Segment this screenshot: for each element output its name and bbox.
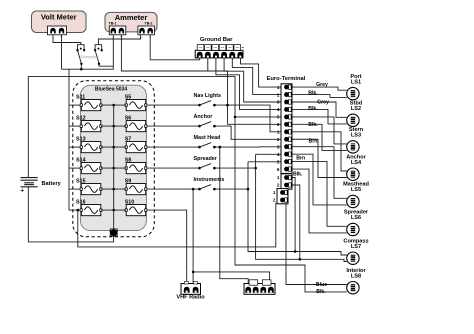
euro-terminal strip B (277, 174, 292, 189)
svg-text:Euro-Terminal: Euro-Terminal (267, 76, 306, 82)
wire label Blk. (308, 122, 318, 128)
circuit breaker S12 (76, 115, 102, 131)
wire volt meter + terminal down to bus (61, 34, 63, 70)
switch Spreader (194, 156, 218, 170)
svg-text:TB-2: TB-2 (145, 22, 153, 26)
wire panel row 2 internal (101, 125, 126, 128)
wire switch SW2 bottom elbow (99, 64, 113, 67)
switch gang link (80, 56, 99, 58)
svg-text:Blk.: Blk. (308, 90, 318, 96)
wire label Blk. (308, 90, 318, 96)
switch Instruments (194, 177, 225, 191)
circuit breaker S7 (125, 136, 147, 152)
terminal block TB4 (244, 280, 275, 295)
svg-text:6: 6 (277, 167, 280, 172)
svg-text:LS8: LS8 (351, 273, 361, 279)
svg-text:S9: S9 (125, 178, 132, 184)
svg-text:S10: S10 (125, 199, 135, 205)
wire battery positive to panel ground terminal (28, 187, 113, 242)
svg-text:1: 1 (277, 175, 280, 180)
wire ground bar T4 to euro row 3 (224, 58, 281, 103)
svg-text:Battery: Battery (42, 181, 62, 187)
VHF radio (176, 281, 205, 300)
wire Spreader branch into euro row 10 (256, 153, 281, 155)
svg-text:S16: S16 (76, 199, 86, 205)
svg-text:S15: S15 (76, 178, 86, 184)
wire euro-terminal to euro strip B row 1 drop (292, 178, 295, 252)
svg-text:Brn: Brn (296, 156, 305, 162)
svg-text:Blk.: Blk. (316, 289, 326, 295)
wire panel row S9 to Instruments switch (146, 188, 199, 190)
svg-text:Volt Meter: Volt Meter (41, 13, 77, 22)
wire ground bar T2 drop (207, 58, 209, 72)
wire euro-terminal to lamp LS5 brown (292, 147, 347, 199)
wire Mast Head row drop to TB4 pin 1 (220, 147, 248, 284)
switch Anchor (194, 114, 216, 128)
wire label Blk. (308, 106, 318, 112)
wire euro-terminal to lamp LS2 black (292, 109, 347, 123)
wire ground bar T6 to euro row 1 (241, 58, 281, 88)
wire label Grey (317, 99, 329, 105)
wire panel row 3 left stub (69, 146, 81, 148)
circuit breaker S16 (76, 199, 102, 215)
BlueSea 5034 panel dashed border (73, 81, 155, 237)
ammeter M2 (105, 12, 157, 32)
wire label Brn (296, 156, 305, 162)
wire label Grey (316, 82, 328, 88)
svg-text:S7: S7 (125, 136, 132, 142)
svg-text:TB-1: TB-1 (109, 22, 117, 26)
svg-text:S14: S14 (76, 157, 86, 163)
svg-text:Grey: Grey (317, 99, 329, 105)
svg-text:4: 4 (277, 107, 280, 112)
circuit breaker S13 (76, 136, 102, 152)
svg-text:S5: S5 (125, 94, 132, 100)
wire ammeter TB-1 plus to ground bar T2 and euro row 6 (121, 34, 281, 125)
wire panel row 3 internal (101, 146, 126, 149)
wire panel row S10 to VHF radio (146, 210, 187, 284)
wire euro-terminal to lamp LS6 a (292, 162, 347, 227)
svg-text:Blk.: Blk. (308, 122, 318, 128)
wire panel row 4 left stub (69, 167, 81, 169)
svg-text:4: 4 (277, 152, 280, 157)
svg-text:LS3: LS3 (351, 133, 361, 139)
wire switch SW1 bottom to bus (80, 64, 82, 70)
svg-text:LS2: LS2 (351, 106, 361, 112)
svg-text:S8: S8 (125, 157, 132, 163)
svg-text:2: 2 (273, 198, 276, 203)
lamp load LS6 (Spreader) (344, 210, 369, 236)
svg-text:Instruments: Instruments (194, 177, 225, 183)
svg-text:Brn: Brn (309, 139, 318, 145)
svg-text:2: 2 (277, 137, 280, 142)
svg-text:Anchor: Anchor (194, 114, 214, 120)
svg-text:1: 1 (277, 130, 280, 135)
svg-text:2: 2 (277, 183, 280, 188)
wire euro-terminal to lamp LS6 b (292, 169, 347, 233)
svg-text:VHF Radio: VHF Radio (176, 295, 205, 301)
panel bus (113, 105, 115, 230)
wire Nav Lights switch to euro row 7 (215, 105, 281, 132)
battery B1 (20, 178, 62, 195)
svg-text:5: 5 (277, 115, 280, 120)
lamp load LS1 (Port) (347, 74, 362, 100)
svg-text:3: 3 (277, 100, 280, 105)
svg-text:Spreader: Spreader (194, 156, 218, 162)
wire euro-terminal to lamp LS5 black (292, 154, 347, 205)
lamp load LS4 (Anchor) (346, 154, 366, 180)
wire panel row S5 to Nav Lights switch (146, 104, 199, 106)
wire bus under switches to ammeter TB-1 minus (62, 34, 114, 70)
svg-text:Ground Bar: Ground Bar (200, 37, 233, 43)
wire panel row S7 to Mast Head switch (146, 146, 199, 148)
ground bar (195, 37, 243, 58)
svg-text:Nav Lights: Nav Lights (194, 93, 222, 99)
BlueSea 5034 panel body (80, 85, 146, 230)
svg-text:3: 3 (277, 144, 280, 149)
wire Instruments switch to euro row 11 and TB4 pin 1 (215, 188, 248, 190)
lamp load LS5 (Masthead) (343, 182, 369, 208)
svg-text:S12: S12 (76, 115, 86, 121)
circuit breaker S9 (125, 178, 147, 194)
switch Mast Head (194, 135, 221, 149)
wire label Brn (309, 139, 318, 145)
wire ammeter TB-2 minus to switch SW2 feed (98, 34, 140, 45)
svg-text:Ammeter: Ammeter (115, 13, 148, 22)
wire panel row S6 to Anchor switch (146, 125, 199, 127)
svg-text:6: 6 (277, 122, 280, 127)
circuit breaker S14 (76, 157, 102, 173)
wire label Blue (316, 282, 327, 288)
wire panel ground leg to bottom run and euro strip C (78, 203, 276, 247)
wire panel row 2 left stub (69, 125, 81, 127)
wire euro-terminal to lamp LS4 brown (292, 132, 347, 171)
wire panel row S8 to Spreader switch (146, 167, 199, 169)
svg-text:Blue: Blue (316, 282, 327, 288)
svg-text:LS6: LS6 (351, 215, 361, 221)
wire panel row 5 left stub (69, 188, 81, 190)
ammeter terminal block TB-1 (109, 26, 126, 39)
wire panel row 6 internal (101, 209, 126, 212)
wire battery negative up and across to lamp LS8 black (28, 77, 347, 292)
wire euro-terminal to lamp LS4 b (292, 139, 347, 177)
wire Spreader switch to euro row 10 and TB4 pin 2 (215, 167, 256, 169)
volt meter terminal block (48, 26, 67, 39)
wire label Blk. (293, 172, 303, 178)
wire VHF junction across to TB4 pin 4 (193, 272, 270, 281)
wire euro-terminal to euro strip B row 2 drop (292, 185, 300, 259)
wire battery riser tap into euro row 5 (235, 116, 281, 118)
wire Instruments riser to lamp LS7 a (248, 162, 347, 255)
wire Mast Head switch to euro row 9 (215, 146, 281, 148)
ammeter terminal block TB-2 (138, 26, 155, 39)
svg-text:LS1: LS1 (351, 79, 361, 85)
svg-text:S13: S13 (76, 136, 86, 142)
wire euro-terminal to lamp LS3 a (292, 117, 347, 144)
volt meter M1 (32, 11, 87, 33)
wire panel row 1 left stub (69, 104, 81, 106)
switch Nav Lights (194, 93, 222, 107)
circuit breaker S11 (76, 94, 102, 110)
lamp load LS7 (Compass) (343, 238, 368, 264)
svg-text:LS7: LS7 (351, 244, 361, 250)
circuit breaker S10 (125, 199, 147, 215)
circuit breaker S8 (125, 157, 147, 173)
wire volt meter - terminal to switch SW1 feed (53, 34, 81, 45)
wire Instruments branch into euro row 11 (248, 161, 281, 163)
svg-text:LS4: LS4 (351, 160, 362, 166)
svg-text:1: 1 (277, 85, 280, 90)
wire panel row 1 internal (101, 104, 126, 107)
lamp load LS8 (Interior) (346, 268, 366, 294)
euro-terminal strip C (273, 189, 288, 204)
svg-text:5: 5 (277, 159, 280, 164)
wire label Blk. (316, 289, 326, 295)
svg-text:LS5: LS5 (351, 187, 361, 193)
wire ground bar T3 to euro row 4 (216, 58, 281, 110)
panel ground terminal (110, 229, 119, 236)
circuit breaker S15 (76, 178, 102, 194)
wire Anchor switch to euro row 8 (215, 126, 281, 139)
circuit breaker S6 (125, 115, 147, 131)
wire euro-terminal to lamp LS3 black (292, 124, 347, 150)
svg-text:1: 1 (273, 190, 276, 195)
switch SW1 (meter selector pole A) (76, 45, 85, 65)
wire euro-terminal to lamp LS1 black (292, 95, 347, 98)
svg-text:Blk.: Blk. (293, 172, 303, 178)
svg-text:S11: S11 (76, 94, 85, 100)
euro-terminal strip A (267, 76, 306, 173)
wire euro-terminal to lamp LS2 grey (292, 102, 347, 117)
svg-text:S6: S6 (125, 115, 132, 121)
svg-text:BlueSea 5034: BlueSea 5034 (95, 87, 127, 93)
svg-text:+: + (20, 186, 25, 195)
wire ammeter TB-2 plus to ground bar T1 (150, 34, 200, 60)
svg-text:Grey: Grey (316, 82, 328, 88)
lamp load LS3 (Stern) (347, 127, 364, 153)
switch SW2 (meter selector pole B) (94, 45, 103, 65)
wire left trunk from bus to panel rows (68, 69, 70, 210)
wire instruments junction down to VHF radio (192, 189, 194, 284)
wire panel row 5 internal (101, 188, 126, 191)
wire Spreader riser to lamp LS7 b (256, 154, 347, 261)
lamp load LS2 (Stbd) (347, 101, 363, 127)
wire ground bar T5 to euro row 2 (232, 58, 281, 95)
wire panel row 6 left stub (69, 209, 81, 211)
svg-text:2: 2 (277, 92, 280, 97)
circuit breaker S5 (125, 94, 147, 110)
svg-text:Mast Head: Mast Head (194, 135, 221, 141)
wire panel row 4 internal (101, 167, 126, 170)
svg-text:Blk.: Blk. (308, 106, 318, 112)
wire euro-terminal to lamp LS1 grey (292, 87, 347, 90)
wire euro-terminal to lamp LS8 blue (286, 204, 347, 285)
